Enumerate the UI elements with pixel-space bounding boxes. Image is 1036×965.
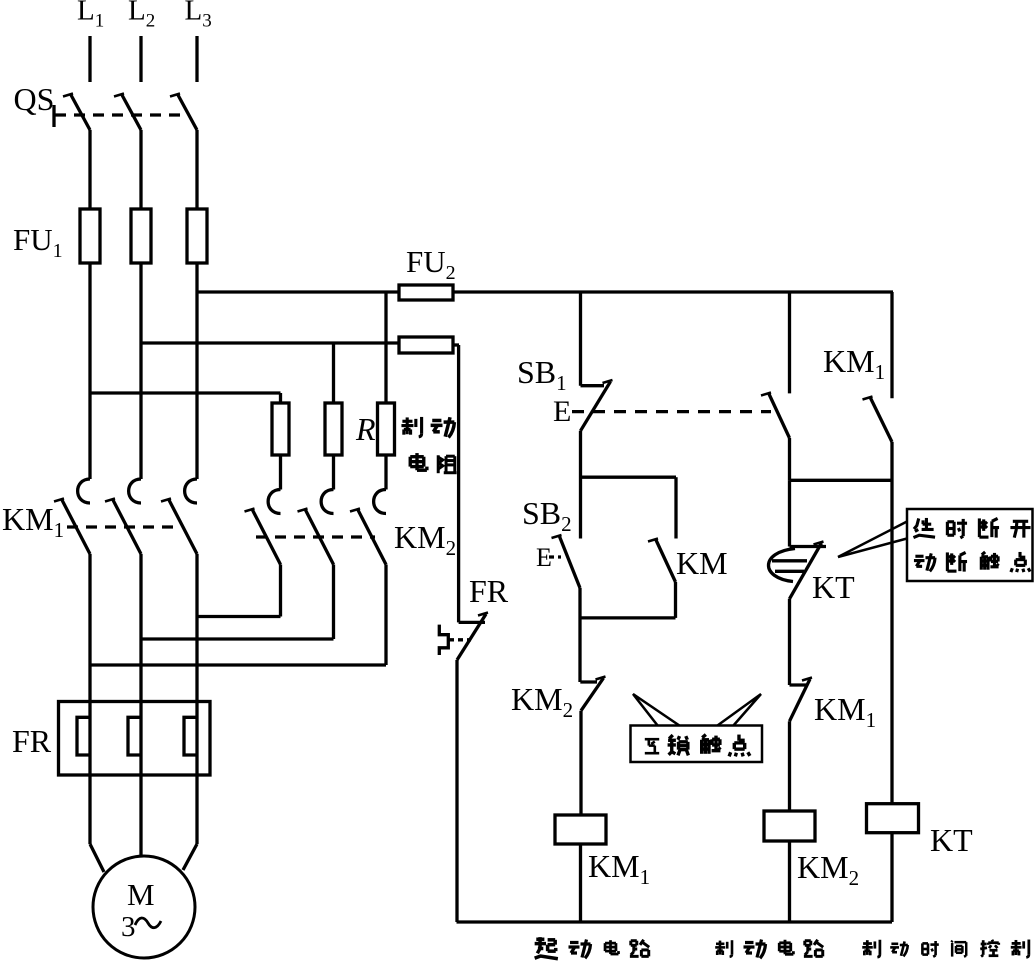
svg-text:E: E	[536, 543, 552, 572]
svg-text:QS: QS	[14, 81, 55, 117]
svg-text:E: E	[553, 395, 571, 428]
svg-text:3: 3	[121, 911, 136, 943]
svg-text:FR: FR	[12, 723, 52, 759]
svg-text:M: M	[127, 877, 155, 912]
svg-text:KM: KM	[676, 545, 728, 581]
svg-text:R: R	[355, 411, 376, 447]
svg-text:FR: FR	[469, 573, 509, 609]
svg-text:KT: KT	[812, 569, 855, 605]
svg-text:KT: KT	[930, 822, 973, 858]
